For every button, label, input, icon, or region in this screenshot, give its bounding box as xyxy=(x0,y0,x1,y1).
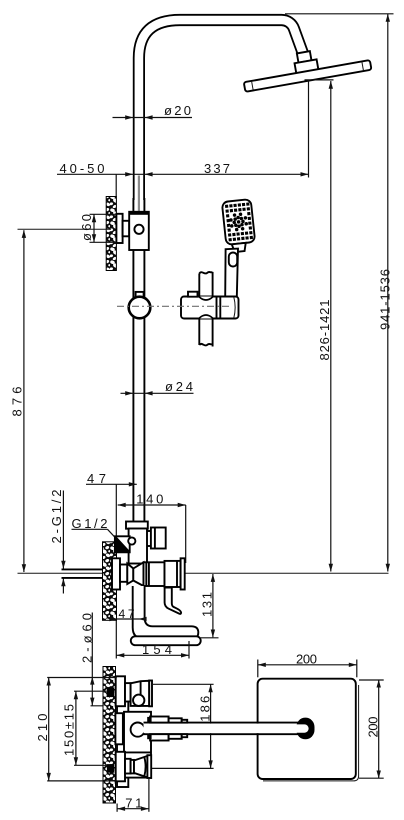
bottom inlet horn xyxy=(134,756,147,778)
holder top tab xyxy=(188,292,198,297)
dimension o20 xyxy=(113,103,193,120)
bracket arm xyxy=(123,221,130,237)
spout body xyxy=(133,586,199,639)
dimension line 40-50 and 337 xyxy=(57,81,309,197)
mixer rear body plate xyxy=(117,687,128,787)
dimension 71 xyxy=(117,778,149,812)
holder pillar pipe lower xyxy=(199,319,212,347)
valve spacer xyxy=(120,565,127,582)
wall hatch middle xyxy=(103,542,117,621)
shower head xyxy=(244,60,372,92)
bracket clamp on column xyxy=(129,212,149,250)
handle plate xyxy=(181,558,185,589)
svg-text:200: 200 xyxy=(365,717,380,738)
hand shower neck xyxy=(232,243,247,252)
dimension 826-1421 xyxy=(317,81,333,572)
dimension 47 upper xyxy=(86,471,137,536)
svg-text:826-1421: 826-1421 xyxy=(317,300,332,361)
svg-text:40-50: 40-50 xyxy=(60,161,105,176)
dimension 200 top xyxy=(258,651,357,677)
bottom inlet small ring xyxy=(131,760,134,774)
svg-text:ø60: ø60 xyxy=(79,214,94,241)
bottom inlet nut xyxy=(125,759,131,774)
dimension 2-o60 xyxy=(79,613,108,706)
extension 337 right / head center xyxy=(308,81,310,178)
bracket centerline xyxy=(18,228,112,230)
wall plate square xyxy=(258,679,359,781)
hand shower handle xyxy=(225,249,238,298)
dimension 154 xyxy=(116,621,189,659)
wall hatch bottom xyxy=(103,667,116,804)
dimension 140 xyxy=(118,492,186,564)
inlet pipe behind wall xyxy=(62,568,113,570)
svg-text:337: 337 xyxy=(204,161,230,176)
pipe junction corner marks xyxy=(147,717,151,722)
slider ball xyxy=(129,297,151,319)
valve cartridge xyxy=(144,562,165,586)
holder pillar pipe upper xyxy=(199,272,212,297)
middle valve escutcheon xyxy=(115,713,123,744)
wall flange escutcheon xyxy=(116,214,122,243)
svg-text:210: 210 xyxy=(35,714,50,742)
dimension 150+-15 xyxy=(61,691,107,765)
plate pipe end fitting xyxy=(284,718,315,740)
valve cap xyxy=(165,561,181,587)
handle button xyxy=(229,253,237,267)
dimension extension top (941-1536) xyxy=(285,13,394,15)
extension 40-50 wall xyxy=(115,174,117,196)
dimension 2-G1/2 xyxy=(49,490,66,594)
spout lip xyxy=(131,636,201,645)
wall hatch upper xyxy=(106,197,116,271)
inner pipe gray line xyxy=(138,176,140,212)
wire shower riser curved pipe xyxy=(139,20,304,200)
svg-text:941-1536: 941-1536 xyxy=(377,269,392,330)
top inlet check valve circle xyxy=(133,695,144,706)
mixer central body front view xyxy=(124,712,151,778)
mixer top collar nut xyxy=(126,522,148,529)
valve cone xyxy=(127,564,133,585)
handle lever xyxy=(165,588,182,614)
top inlet nut xyxy=(125,683,131,701)
outlet pipe to plate xyxy=(144,724,299,734)
centerline slider-holder dashed xyxy=(117,305,231,307)
dimension 47 lower xyxy=(109,607,146,621)
wall pipe stub bottom (black) xyxy=(107,764,114,773)
svg-text:140: 140 xyxy=(136,492,163,507)
hand shower head xyxy=(222,199,255,245)
top inlet side cap xyxy=(149,681,152,707)
G1/2 elbow fitting xyxy=(115,536,135,552)
dimension 131 xyxy=(200,574,219,638)
svg-text:ø20: ø20 xyxy=(164,103,191,118)
svg-text:154: 154 xyxy=(142,642,172,657)
hand shower group xyxy=(222,199,256,253)
svg-text:ø24: ø24 xyxy=(165,379,193,394)
long centerline mixer axis xyxy=(18,572,389,574)
bottom inlet block xyxy=(147,755,151,778)
clamp pivot xyxy=(134,225,143,234)
top inlet escutcheon xyxy=(116,676,125,706)
dimension 210 xyxy=(35,678,117,781)
svg-text:186: 186 xyxy=(198,696,213,722)
label G1/2 with leader xyxy=(72,516,118,540)
svg-text:876: 876 xyxy=(10,387,25,417)
extension line under head (826-1421) xyxy=(305,79,334,81)
shower head connector nut xyxy=(240,41,371,92)
svg-text:200: 200 xyxy=(296,651,317,666)
valve stem circle xyxy=(131,723,145,737)
slider holder tab xyxy=(136,292,144,298)
dimension o24 xyxy=(121,379,194,395)
wall pipe stub top (black) xyxy=(107,687,114,697)
holder block xyxy=(181,292,239,319)
svg-text:131: 131 xyxy=(200,592,215,617)
shower head connector base xyxy=(295,59,319,74)
dimension 186 xyxy=(152,684,214,768)
dimension 200 right xyxy=(359,680,384,779)
dimension 876 xyxy=(10,230,26,572)
valve escutcheon xyxy=(112,558,120,589)
hand shower face dots xyxy=(225,202,253,241)
diverter knob xyxy=(147,528,166,549)
dimension o60 xyxy=(79,214,117,242)
bottom inlet escutcheon xyxy=(116,752,125,782)
top inlet body xyxy=(131,681,150,706)
dimension 941-1536 xyxy=(377,14,392,572)
pipe union nut rects xyxy=(150,717,169,724)
mixer vertical body xyxy=(129,529,147,564)
column outer tube xyxy=(132,198,134,522)
